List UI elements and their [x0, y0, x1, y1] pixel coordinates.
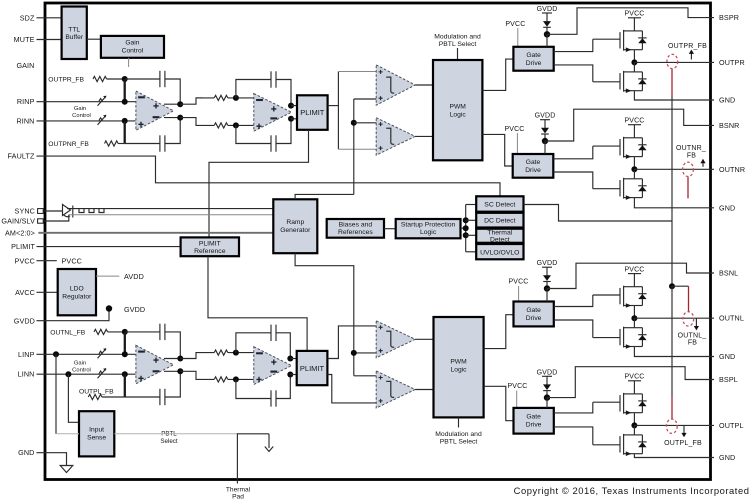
resistor OUTPR_FB	[93, 76, 107, 81]
svg-text:SC Detect: SC Detect	[484, 202, 515, 209]
wire PLIMIT1 output	[328, 105, 339, 107]
svg-text:OUTPL_FB: OUTPL_FB	[79, 389, 114, 396]
svg-text:Control: Control	[122, 48, 144, 55]
junction OUTNL_FB	[122, 329, 128, 335]
wire GAIN/SLV	[43, 215, 69, 221]
capacitor C7 (top feedback, second stage left)	[271, 325, 276, 341]
svg-text:LINN: LINN	[18, 370, 35, 379]
svg-text:Gain: Gain	[125, 40, 139, 47]
svg-text:Thermal: Thermal	[487, 230, 512, 237]
svg-text:PVCC: PVCC	[62, 256, 82, 265]
wire bus to DC Detect	[466, 219, 477, 221]
svg-text:PWM: PWM	[450, 103, 467, 110]
svg-text:Sense: Sense	[87, 434, 106, 441]
svg-text:LDO: LDO	[70, 286, 84, 293]
svg-text:OUTPL: OUTPL	[719, 421, 744, 430]
wire to comparator CMP1 plus input	[338, 71, 377, 73]
junction GVDD net	[106, 305, 112, 311]
wire TTL buffer to Gain Control	[87, 38, 101, 40]
wire PLIMIT1 bottom to PLIMIT Reference	[209, 130, 309, 238]
svg-text:Generator: Generator	[280, 227, 311, 234]
wire PWM1 output 1 to gate drive GD1	[482, 59, 513, 90]
wire SC detect output right	[524, 205, 673, 222]
svg-text:BSNL: BSNL	[719, 269, 738, 278]
pin square SYNC	[38, 209, 44, 214]
wire OUTNR sense red below	[687, 177, 689, 199]
wire PLIMIT pin to PLIMIT Reference	[37, 246, 181, 248]
junction U3 outN	[177, 368, 183, 374]
wire ramp generator bottom output	[295, 253, 354, 376]
svg-text:Select: Select	[160, 438, 177, 445]
attenuator arrow RINN	[98, 115, 107, 125]
resistor R2 (second stage input N)	[214, 123, 228, 128]
comparator CMP3	[376, 321, 415, 358]
wire U3 output N	[164, 370, 180, 372]
svg-text:FB: FB	[687, 152, 696, 159]
SC Detect block	[476, 196, 523, 211]
ground symbol	[60, 466, 73, 473]
svg-text:PVCC: PVCC	[15, 256, 35, 265]
svg-text:OUTNL_FB: OUTNL_FB	[50, 329, 85, 336]
wire U2 bottom feedback	[236, 125, 271, 143]
wire GVDD1 to GD1	[546, 34, 548, 47]
sense ellipse OUTNR	[683, 162, 694, 176]
pin square GAIN/SLV	[38, 219, 44, 223]
PLIMIT block (top)	[297, 95, 328, 130]
wire bus to UVLO	[466, 251, 477, 253]
wire OUTPR sense red	[671, 69, 673, 97]
svg-text:OUTNR_: OUTNR_	[676, 145, 706, 152]
junction U3 outP	[177, 356, 183, 362]
svg-text:GAIN/SLV: GAIN/SLV	[1, 217, 35, 226]
Ramp Generator block	[273, 199, 317, 253]
PLIMIT Reference block	[181, 237, 239, 256]
wire SDZ to TTL buffer	[37, 17, 62, 19]
DC Detect block	[476, 213, 523, 228]
wire Gain Control dangling stub	[128, 58, 130, 67]
svg-text:OUTPR_FB: OUTPR_FB	[668, 43, 707, 50]
wire C4 to U2 output	[276, 119, 291, 144]
wire label to PWM1	[457, 48, 459, 60]
svg-text:TTL: TTL	[68, 26, 80, 33]
svg-text:AM<2:0>: AM<2:0>	[5, 228, 35, 237]
svg-text:OUTPL_FB: OUTPL_FB	[664, 440, 702, 447]
wire PWM2 to label	[458, 417, 460, 427]
Gain Control block (top)	[101, 36, 164, 58]
capacitor C5 (top feedback, first stage left)	[160, 324, 165, 340]
capacitor C6 (bottom feedback, first stage left)	[160, 389, 165, 405]
wire U2 outputs into PLIMIT1	[291, 105, 297, 107]
svg-text:FB: FB	[688, 340, 697, 347]
wire OUTPR_FB to node	[107, 78, 125, 80]
wire GVDD4 to GD4	[546, 398, 548, 408]
svg-text:GND: GND	[18, 448, 34, 457]
svg-text:PWM: PWM	[450, 359, 467, 366]
svg-text:Reference: Reference	[194, 248, 226, 255]
Gate Drive block GD3	[514, 302, 554, 327]
PWM Logic block (top)	[433, 60, 482, 160]
wire ramp vertical (top)	[353, 99, 355, 194]
svg-text:OUTNL: OUTNL	[719, 314, 744, 323]
Biases and References block	[327, 219, 384, 238]
resistor R1 (second stage input P)	[214, 95, 228, 100]
wire PVCC to GD4	[516, 391, 518, 408]
svg-text:PLIMIT: PLIMIT	[199, 240, 221, 247]
svg-text:Input: Input	[89, 427, 104, 434]
resistor OUTPL_FB	[88, 394, 102, 399]
wire PVCC to GD2	[516, 133, 518, 154]
svg-text:GVDD: GVDD	[14, 316, 35, 325]
svg-text:PBTL Select: PBTL Select	[439, 41, 477, 48]
op-amp U1 (first stage right channel)	[136, 91, 174, 130]
wire node to capacitor C6	[125, 396, 160, 398]
wire U4 bottom feedback	[236, 379, 271, 398]
wire C3 to U2 output	[276, 80, 291, 106]
wire C8 to U4 output	[276, 375, 290, 399]
wire GVDD pin net	[37, 309, 110, 321]
wire PLIMIT2 output lower	[327, 375, 377, 403]
wire OUTNL sense red	[688, 286, 690, 312]
output half-bridge OUTPL	[593, 374, 714, 457]
svg-text:OUTPNR_FB: OUTPNR_FB	[48, 141, 89, 148]
junction bus thermal	[463, 232, 469, 238]
wire R3 to U4	[228, 352, 254, 354]
wire PLIMIT2 output upper	[327, 326, 377, 359]
svg-text:Modulation and: Modulation and	[435, 431, 482, 438]
junction bus DC	[463, 217, 469, 223]
wire LINN to op-amp U3	[37, 373, 136, 375]
op-amp U2 (second stage right channel)	[254, 94, 292, 132]
svg-text:GVDD: GVDD	[124, 305, 145, 314]
arrow OUTNR_FB up	[702, 161, 704, 167]
wire thick RINP node column	[124, 79, 126, 102]
svg-text:Gate: Gate	[526, 414, 541, 421]
svg-text:OUTPR_FB: OUTPR_FB	[48, 76, 84, 83]
PLIMIT block (bottom)	[297, 351, 328, 385]
wire ramp generator top output	[295, 194, 354, 199]
junction RINP	[122, 99, 128, 105]
wire RINP to op-amp U1	[37, 101, 136, 103]
svg-text:Detect: Detect	[490, 237, 510, 244]
svg-text:PBTL Select: PBTL Select	[440, 439, 478, 446]
wire bootstrap BSNR	[545, 109, 714, 141]
svg-text:UVLO/OVLO: UVLO/OVLO	[480, 250, 519, 257]
wire bootstrap BSPL	[547, 367, 714, 398]
svg-text:GND: GND	[719, 352, 735, 361]
oscillator symbol	[63, 205, 73, 218]
junction LINN	[122, 371, 128, 377]
wire OUTPL_FB to node	[102, 396, 125, 398]
arrow OUTPR_FB up	[690, 52, 692, 60]
svg-text:PLIMIT: PLIMIT	[11, 242, 35, 251]
wire thermal arrow	[268, 434, 270, 448]
junction U4 inN	[233, 376, 239, 382]
wire low source to GND3	[634, 347, 714, 357]
junction RINN	[122, 118, 128, 124]
svg-text:Buffer: Buffer	[65, 34, 83, 41]
wire PVCC pin stub	[37, 260, 57, 262]
wire AVCC to LDO	[37, 291, 58, 293]
svg-text:References: References	[338, 229, 373, 236]
wire ramp to CMP3	[354, 352, 377, 354]
svg-text:Logic: Logic	[420, 229, 437, 236]
wire low source to GND1	[634, 91, 714, 100]
wire low source to GND4	[634, 454, 714, 458]
GVDD assembly 4	[537, 369, 558, 401]
svg-text:RINN: RINN	[16, 116, 34, 125]
junction U2 inP	[233, 95, 239, 101]
wire U1 outP to R1	[180, 98, 202, 104]
wire LINP tap to thermal rail	[55, 354, 57, 434]
wire GD4 to high gate	[554, 402, 593, 413]
resistor OUTNL_FB	[94, 329, 108, 334]
wire PLIMIT Reference to bottom PLIMIT2	[208, 256, 307, 351]
wire thick LINP node column	[124, 332, 126, 354]
wire low source to GND2	[634, 198, 714, 208]
Gate Drive block GD1	[513, 47, 553, 71]
output half-bridge OUTNR	[593, 117, 714, 199]
wire U3 outN to R4	[180, 371, 214, 379]
junction LINN tap	[65, 371, 71, 377]
junction U1 outN	[177, 115, 183, 121]
svg-text:LINP: LINP	[18, 350, 35, 359]
wire sense branch to OUTNL	[672, 285, 689, 287]
wire C5 to output node	[165, 332, 180, 359]
comparator CMP1	[376, 65, 415, 105]
svg-text:Gate: Gate	[526, 307, 541, 314]
svg-text:OUTNL_: OUTNL_	[678, 332, 707, 339]
wire bootstrap BSNL	[547, 263, 714, 288]
svg-text:AVDD: AVDD	[124, 272, 144, 281]
comparator CMP4	[376, 371, 415, 408]
wire RINN to op-amp U1	[37, 120, 136, 122]
svg-text:GAIN: GAIN	[16, 61, 34, 70]
GVDD assembly 1	[537, 6, 558, 38]
junction ramp node top	[351, 120, 357, 126]
wire bus to Thermal Detect	[466, 234, 477, 236]
junction U2 outP	[288, 103, 294, 109]
wire GD3 to high gate	[554, 295, 593, 307]
wire sense vertical black lower	[671, 286, 673, 397]
svg-text:GND: GND	[719, 96, 735, 105]
wire OUTNL_FB to node	[108, 331, 125, 333]
wire GD3 to low gate	[554, 320, 593, 338]
svg-text:PVCC: PVCC	[505, 21, 525, 28]
attenuator arrow LINP	[98, 348, 107, 358]
svg-text:PVCC: PVCC	[508, 279, 528, 286]
wire PLIMIT1 output bus vertical	[337, 72, 339, 150]
sense ellipse OUTPL	[666, 419, 677, 433]
wire GD1 to low gate	[554, 65, 593, 82]
svg-text:Drive: Drive	[526, 422, 542, 429]
svg-text:SDZ: SDZ	[20, 13, 35, 22]
svg-text:MUTE: MUTE	[14, 35, 35, 44]
wire thermal rail (light)	[56, 433, 79, 435]
svg-text:PVCC: PVCC	[504, 126, 524, 133]
wire U1 outN to R2	[180, 118, 214, 126]
svg-text:GND: GND	[719, 453, 735, 462]
op-amp U4 (second stage left channel)	[254, 347, 292, 385]
resistor R4 (second stage input N left)	[214, 377, 228, 382]
svg-text:Biases and: Biases and	[339, 222, 373, 229]
wire GVDD3 to GD3	[546, 289, 548, 302]
Gate Drive block GD4	[514, 408, 554, 434]
svg-text:OUTNR: OUTNR	[719, 165, 745, 174]
wire AVDD output	[96, 275, 119, 277]
svg-text:Gain: Gain	[74, 361, 86, 367]
svg-text:PLIMIT: PLIMIT	[300, 108, 325, 117]
wire C1 to output node	[165, 79, 180, 104]
wire ramp to CMP4	[354, 375, 377, 377]
Thermal Detect block	[476, 229, 523, 243]
wire GD2 to low gate	[553, 172, 593, 189]
output half-bridge OUTPR	[593, 11, 714, 94]
wire thick LINN node column	[124, 374, 126, 397]
op-amp U3 (first stage left channel)	[136, 345, 174, 384]
svg-text:Ramp: Ramp	[286, 219, 304, 226]
svg-text:Modulation and: Modulation and	[434, 34, 481, 41]
wire OUTPNR_FB to node	[118, 143, 125, 145]
wire R2 to U2	[228, 124, 254, 126]
wire CMP1 output to PWM logic	[415, 84, 433, 86]
wire GND pin	[37, 453, 67, 465]
wire FAULTZ net	[37, 156, 501, 196]
wire node to capacitor C5	[125, 331, 160, 333]
wire U4 outputs into PLIMIT2	[290, 358, 296, 360]
wire C2 to output node	[165, 118, 180, 144]
junction LINP tap	[53, 351, 59, 357]
PWM Logic block (bottom)	[434, 317, 484, 417]
svg-text:OUTPR: OUTPR	[719, 58, 745, 67]
attenuator arrow LINN	[98, 368, 107, 378]
wire oscillator output B to ramp generator	[69, 214, 273, 216]
svg-text:Gate: Gate	[526, 159, 541, 166]
wire U3 output P	[164, 358, 180, 360]
junction U4 inP	[233, 350, 239, 356]
sense ellipse OUTPR	[667, 54, 678, 68]
wire to comparator CMP2 minus input	[338, 148, 377, 150]
wire ramp to CMP2	[354, 122, 377, 124]
wire R1 to U2	[228, 97, 254, 99]
junction U4 outN	[287, 372, 293, 378]
junction ramp node bottom	[351, 350, 357, 356]
svg-text:Logic: Logic	[450, 111, 467, 118]
junction LINP	[122, 351, 128, 357]
junction U2 inN	[233, 122, 239, 128]
svg-text:RINP: RINP	[17, 97, 35, 106]
wire OUTPL sense red	[671, 397, 673, 419]
svg-text:Regulator: Regulator	[62, 293, 92, 300]
wire U1 output P	[164, 103, 180, 105]
capacitor C1 (top feedback, first stage)	[160, 71, 165, 87]
wire node to capacitor C1	[125, 78, 160, 80]
wire R1 segment	[196, 97, 214, 99]
svg-text:AVCC: AVCC	[15, 288, 35, 297]
wire biases to startup logic	[384, 228, 396, 230]
wire GD4 to low gate	[554, 427, 593, 445]
junction U4 outP	[287, 356, 293, 362]
svg-text:Drive: Drive	[525, 167, 541, 174]
output half-bridge OUTNL	[593, 266, 714, 349]
wire CMP4 output to PWM2	[415, 389, 433, 391]
Gate Drive block GD2	[513, 154, 554, 178]
capacitor C4 (bottom feedback, second stage)	[271, 135, 276, 151]
wire startup logic to detect bus	[461, 227, 466, 229]
node junction OUTPR_FB	[122, 76, 128, 82]
wire node to capacitor C2	[125, 143, 160, 145]
capacitor C3 (top feedback, second stage)	[271, 71, 276, 87]
junction bus startup	[463, 225, 469, 231]
svg-text:Startup Protection: Startup Protection	[401, 222, 456, 229]
UVLO/OVLO block	[476, 244, 523, 259]
wire PWM2 output 2 to gate drive GD4	[484, 386, 514, 420]
junction sense node	[669, 283, 675, 289]
wire PWM1 output 2 to gate drive GD2	[482, 134, 512, 166]
svg-text:Drive: Drive	[526, 315, 542, 322]
wire U2 top feedback	[236, 80, 271, 98]
Input Sense block	[79, 411, 114, 456]
svg-text:Gain: Gain	[74, 106, 86, 112]
svg-text:Thermal: Thermal	[226, 487, 251, 494]
junction U1 outP	[177, 101, 183, 107]
wire SYNC to oscillator	[43, 210, 62, 212]
square wave glyph	[79, 209, 104, 213]
wire bus to SC Detect	[466, 204, 477, 206]
svg-text:PVCC: PVCC	[507, 383, 527, 390]
svg-text:BSPL: BSPL	[719, 375, 738, 384]
svg-text:Gate: Gate	[526, 52, 541, 59]
TTL Buffer block	[62, 7, 87, 60]
resistor OUTPNR_FB	[105, 141, 119, 146]
wire LINP to op-amp U3	[37, 353, 136, 355]
wire bootstrap BSPR	[547, 8, 714, 35]
resistor R3 (second stage input P left)	[214, 350, 228, 355]
Startup Protection Logic block	[396, 219, 461, 238]
wire CMP3 output to PWM2	[415, 338, 433, 340]
wire PWM2 output 1 to gate drive GD3	[484, 315, 514, 349]
capacitor C8 (bottom feedback, second stage left)	[271, 390, 276, 406]
junction U2 outN	[288, 116, 294, 122]
wire LINN tap to input sense	[68, 374, 79, 422]
sense ellipse OUTNL	[683, 312, 694, 326]
LDO Regulator block	[58, 269, 96, 315]
wire oscillator output A to ramp generator	[67, 208, 273, 210]
wire MUTE to TTL buffer	[37, 39, 62, 41]
arrow OUTPL_FB down	[683, 426, 685, 434]
arrow OUTNL_FB down	[695, 318, 697, 327]
wire R4 to U4	[228, 378, 254, 380]
svg-text:Copyright © 2016, Texas Instru: Copyright © 2016, Texas Instruments Inco…	[514, 485, 750, 496]
svg-text:Drive: Drive	[526, 60, 542, 67]
wire thick RINN node column	[124, 121, 126, 144]
wire PVCC to GD3	[518, 286, 520, 302]
svg-text:FAULTZ: FAULTZ	[8, 152, 35, 161]
svg-text:PLIMIT: PLIMIT	[300, 364, 325, 373]
GVDD assembly 3	[537, 260, 558, 292]
wire U4 top feedback	[236, 333, 271, 353]
svg-text:GND: GND	[719, 203, 735, 212]
attenuator arrow RINP	[98, 96, 107, 106]
comparator CMP2	[376, 118, 415, 155]
svg-text:BSNR: BSNR	[719, 121, 739, 130]
svg-text:BSPR: BSPR	[719, 13, 739, 22]
wire PVCC to GD1	[517, 28, 519, 47]
wire U1 output N	[164, 117, 180, 119]
svg-text:SYNC: SYNC	[15, 207, 35, 216]
wire thermal pad connection	[237, 434, 269, 484]
GVDD assembly 2	[535, 113, 556, 145]
wire GD2 to high gate	[553, 146, 593, 159]
